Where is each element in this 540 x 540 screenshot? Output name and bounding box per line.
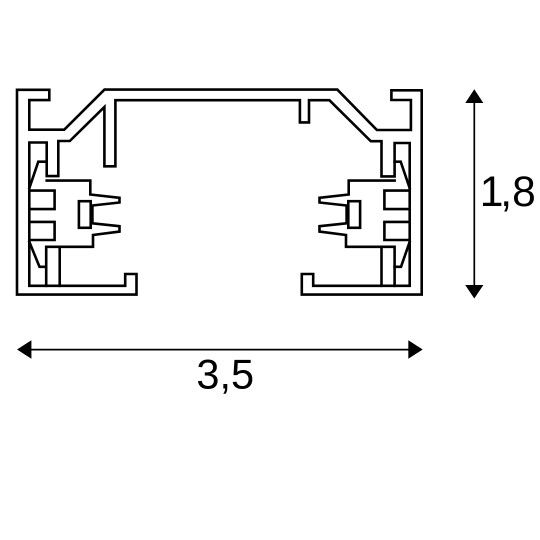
vertical dimension arrow 1,8 (465, 89, 483, 298)
svg-text:3,5: 3,5 (196, 351, 254, 398)
right insulator body (320, 181, 395, 286)
right conductor chamber B (384, 222, 409, 240)
right conductor chamber A (384, 191, 409, 210)
right conductor bar (348, 201, 360, 228)
left insulator leg right (58, 247, 61, 286)
left conductor chamber A (29, 191, 54, 210)
horizontal dimension arrow 3,5 (17, 340, 423, 358)
right insulator foot (395, 242, 410, 267)
track profile outer/inner contour (17, 90, 422, 295)
left conductor bar (79, 201, 91, 228)
left insulator body (46, 181, 119, 286)
left insulator foot (29, 242, 46, 267)
svg-text:,8: ,8 (500, 169, 535, 216)
left conductor chamber B (29, 222, 54, 240)
left insulator top slant (29, 162, 46, 189)
right insulator top slant (395, 162, 410, 189)
right insulator leg left (380, 247, 383, 286)
